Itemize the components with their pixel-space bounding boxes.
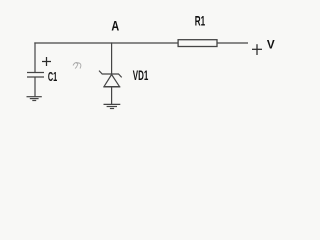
capacitor C1 polarity plus [42, 57, 51, 66]
faint annotation squiggle [73, 63, 81, 69]
zener diode VD1 cathode bar with bent ends [99, 71, 122, 78]
svg-text:V: V [267, 38, 276, 52]
node +V output label [252, 44, 262, 55]
capacitor C1 plates [27, 72, 44, 74]
wire: zener to ground [111, 87, 113, 104]
wire: capacitor to ground [34, 77, 36, 97]
wire: main horizontal rail from left corner to resistor [34, 42, 178, 44]
ground (zener) [104, 104, 121, 108]
wire: node A vertical drop to zener [111, 42, 113, 74]
wire: resistor to output terminal [217, 42, 248, 44]
svg-text:VD1: VD1 [133, 68, 149, 83]
svg-text:A: A [111, 18, 119, 33]
ground (capacitor) [27, 97, 42, 101]
zener diode VD1 anode triangle [104, 75, 120, 87]
resistor R1 [178, 40, 217, 47]
svg-text:R1: R1 [195, 14, 206, 29]
svg-text:C1: C1 [48, 70, 57, 84]
wire: left vertical drop to capacitor [34, 42, 36, 72]
